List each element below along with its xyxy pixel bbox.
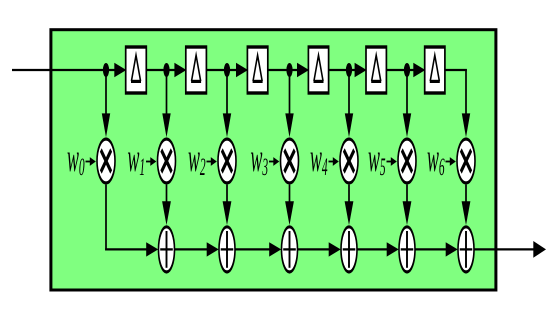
wire: tap J5 down to multiplier M4 <box>345 70 353 137</box>
delay element D3 (unit delay) <box>247 47 267 93</box>
wire: tap J6 down to multiplier M5 <box>403 70 411 137</box>
wire: delay line segment after delay D3 <box>267 63 309 77</box>
delay element D2 (unit delay) <box>186 47 207 93</box>
wire: weight w6 arrow into multiplier M6 <box>446 157 456 166</box>
delay element D1 (unit delay) <box>126 47 147 93</box>
wire: weight w3 arrow into multiplier M3 <box>269 157 279 166</box>
multiplier M1 (weight w1) <box>158 139 176 183</box>
wire: weight w2 arrow into multiplier M2 <box>207 157 217 166</box>
wire: weight w1 arrow into multiplier M1 <box>146 157 156 166</box>
multiplier M3 (weight w3) <box>281 139 299 183</box>
delay element D5 (unit delay) <box>366 47 386 93</box>
multiplier M6 (weight w6) <box>457 139 475 183</box>
wire: multiplier M2 output down to adder A2 <box>223 185 232 226</box>
wire: adder A3 output to adder A4 <box>298 242 341 256</box>
wire: tap J2 down to multiplier M1 <box>162 70 170 137</box>
wire: weight w5 arrow into multiplier M5 <box>387 157 397 166</box>
wire: adder A2 output to adder A3 <box>236 242 282 256</box>
adder A3 (summation) <box>282 227 298 272</box>
wire: tap J4 down to multiplier M3 <box>285 70 293 137</box>
wire: delay line segment after delay D4 <box>328 63 367 77</box>
node: tap junction J5 <box>346 63 352 77</box>
node: tap junction J4 <box>286 63 292 77</box>
multiplier M2 (weight w2) <box>218 139 236 183</box>
adder A1 (summation) <box>159 227 175 272</box>
wire: weight w4 arrow into multiplier M4 <box>329 157 339 166</box>
wire: output signal line <box>475 241 547 258</box>
wire: input signal line <box>12 63 126 77</box>
wire: delay line segment after delay D2 <box>205 63 248 77</box>
wire: adder A4 output to adder A5 <box>358 242 399 256</box>
node: tap junction J2 <box>163 63 169 77</box>
adder A4 (summation) <box>341 227 357 272</box>
node: tap junction J6 <box>404 63 410 77</box>
delay element D6 (unit delay) <box>425 47 445 93</box>
wire: multiplier M3 output down to adder A3 <box>285 185 294 226</box>
wire: adder A5 output to adder A6 <box>416 242 458 256</box>
wire: weight w0 arrow into multiplier M0 <box>86 157 96 166</box>
multiplier M5 (weight w5) <box>398 139 416 183</box>
wire: multiplier M4 output down to adder A4 <box>345 185 354 226</box>
wire: tap J3 down to multiplier M2 <box>223 70 231 137</box>
node: tap junction J3 <box>224 63 230 77</box>
delay element D4 (unit delay) <box>308 47 328 93</box>
wire: tap J1 down to multiplier M0 <box>102 70 110 137</box>
wire: adder A1 output to adder A2 <box>175 242 219 256</box>
wire: delay line segment after delay D1 <box>145 63 186 77</box>
wire: multiplier M1 output down to adder A1 <box>162 185 171 226</box>
multiplier M0 (weight w0) <box>97 139 115 183</box>
node: tap junction J1 <box>103 63 109 77</box>
wire: segment from delay D6 to last tap corner <box>444 69 470 137</box>
adder A6 (summation) <box>458 227 474 272</box>
multiplier M4 (weight w4) <box>340 139 358 183</box>
filter enclosure: green box <box>51 30 496 290</box>
wire: multiplier M5 output down to adder A5 <box>403 185 412 226</box>
adder A5 (summation) <box>399 227 415 272</box>
wire: multiplier M6 output down to adder A6 <box>462 185 471 226</box>
wire: delay line segment after delay D5 <box>385 63 425 77</box>
adder A2 (summation) <box>219 227 235 272</box>
wire: multiplier M0 output elbow to adder A1 <box>105 185 158 257</box>
